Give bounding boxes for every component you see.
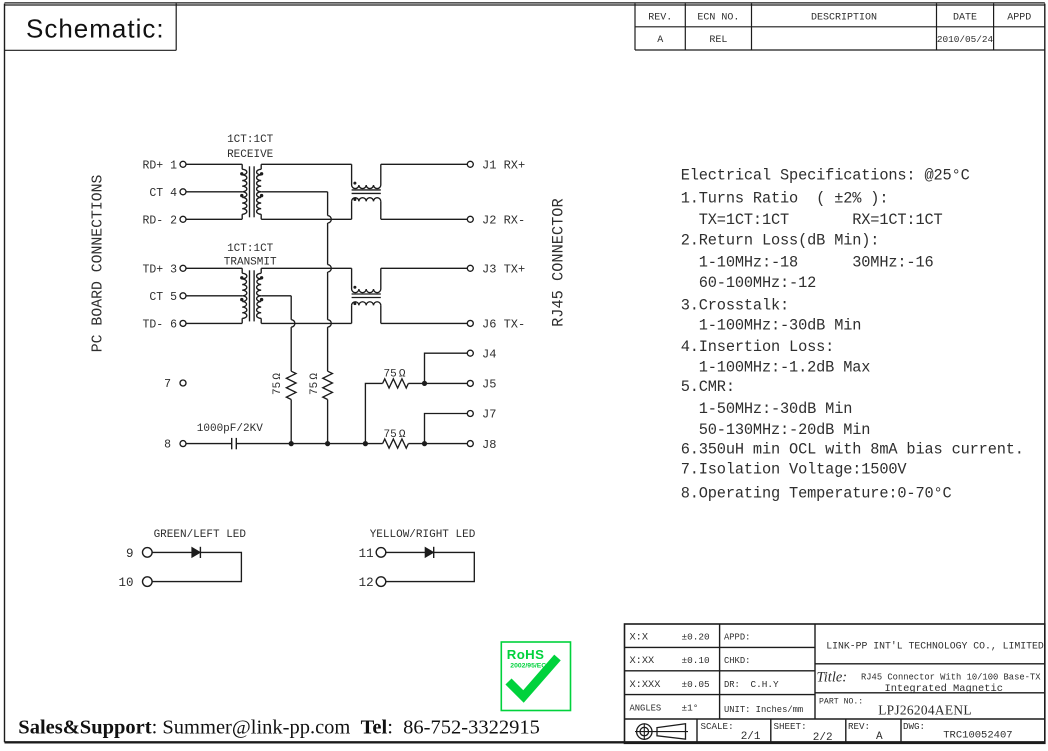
svg-text:1-10MHz:-18 30MHz:-16: 1-10MHz:-18 30MHz:-16 — [681, 253, 934, 271]
svg-text:2002/95/EC: 2002/95/EC — [510, 662, 546, 669]
svg-text:RJ45 CONNECTOR: RJ45 CONNECTOR — [550, 198, 568, 327]
pin 3 TD+ — [180, 265, 186, 271]
junction node A (J4/J5) — [422, 381, 427, 386]
svg-text:Schematic:: Schematic: — [26, 14, 165, 44]
svg-text:LPJ26204AENL: LPJ26204AENL — [878, 703, 972, 718]
wire R2 to bus — [327, 400, 329, 444]
title box "Schematic:" — [5, 49, 177, 51]
RJ45 contact J4 — [467, 350, 473, 356]
svg-text:RECEIVE: RECEIVE — [227, 149, 274, 161]
svg-text:75 Ω: 75 Ω — [383, 368, 405, 380]
pin 8 — [180, 441, 186, 447]
wire choke L1 to J2 — [381, 218, 468, 220]
svg-text:J7: J7 — [482, 408, 496, 422]
wire J4 to node A — [425, 353, 468, 383]
choke L1 (receive) top winding — [352, 185, 381, 189]
choke L1 (receive) polarity dots — [353, 182, 356, 185]
svg-text:J4: J4 — [482, 347, 496, 361]
svg-text:2.Return Loss(dB Min):: 2.Return Loss(dB Min): — [681, 231, 880, 249]
wire 9 to LED anode — [152, 551, 192, 553]
svg-text:RD- 2: RD- 2 — [142, 214, 177, 227]
svg-text:TRC10052407: TRC10052407 — [943, 730, 1012, 742]
svg-text:J6 TX-: J6 TX- — [482, 318, 525, 332]
svg-text:J8: J8 — [482, 438, 496, 452]
svg-text:APPD: APPD — [1007, 12, 1031, 23]
svg-text:TRANSMIT: TRANSMIT — [224, 256, 277, 268]
svg-text:TD+ 3: TD+ 3 — [142, 263, 177, 276]
svg-text:A: A — [657, 35, 663, 46]
svg-text:50-130MHz:-20dB Min: 50-130MHz:-20dB Min — [681, 421, 871, 439]
svg-text:REV:: REV: — [848, 721, 870, 732]
svg-text:75 Ω: 75 Ω — [383, 429, 405, 441]
wire R4 to J8 — [408, 443, 467, 445]
pin 11 — [376, 548, 386, 558]
transformer T2 (transmit) polarity dots — [240, 276, 243, 279]
svg-text:SCALE:: SCALE: — [701, 721, 734, 732]
svg-text:J1 RX+: J1 RX+ — [482, 159, 525, 173]
svg-text:Sales&Support: Summer@link-pp.: Sales&Support: Summer@link-pp.com Tel: 8… — [18, 717, 540, 739]
svg-text:75 Ω: 75 Ω — [272, 373, 284, 395]
pin 4 CT — [180, 189, 186, 195]
transformer T1 (receive) core — [249, 166, 251, 217]
svg-text:REL: REL — [709, 35, 727, 46]
green/left LED D1 cathode bar — [199, 547, 201, 558]
wire pin5 to T2 primary center tap — [186, 295, 242, 297]
choke L2 (transmit) top winding — [352, 289, 381, 293]
page frame — [5, 2, 1045, 4]
svg-text:DWG:: DWG: — [903, 721, 925, 732]
pin 12 — [376, 577, 386, 587]
svg-text:RoHS: RoHS — [507, 647, 545, 662]
choke L2 (transmit) polarity dots — [353, 286, 356, 289]
svg-text:Integrated Magnetic: Integrated Magnetic — [884, 683, 1002, 695]
svg-text:CT 4: CT 4 — [149, 187, 177, 200]
wire pin1 to T1 primary — [186, 163, 242, 165]
svg-text:7.Isolation Voltage:1500V: 7.Isolation Voltage:1500V — [681, 461, 908, 479]
svg-text:±0.05: ±0.05 — [682, 679, 711, 690]
svg-text:3.Crosstalk:: 3.Crosstalk: — [681, 297, 789, 315]
svg-text:X:X: X:X — [630, 632, 649, 644]
transformer T1 (receive) secondary winding — [257, 169, 262, 214]
resistor R1 75ohm (transmit CT) — [286, 371, 296, 399]
wire pin6 to T2 primary bottom — [186, 322, 242, 324]
title block bottom strip dividers — [696, 719, 698, 743]
svg-text:RJ45 Connector With 10/100 Bas: RJ45 Connector With 10/100 Base-TX — [861, 673, 1041, 683]
wire pin2 to T1 primary bottom — [186, 218, 242, 220]
wire T1 secondary top to choke L1 — [261, 163, 351, 165]
svg-text:X:XXX: X:XXX — [630, 679, 661, 691]
svg-text:1000pF/2KV: 1000pF/2KV — [197, 423, 263, 435]
svg-text:PART NO.:: PART NO.: — [819, 698, 863, 707]
wire T1 secondary center tap to resistor R2 (with hops) — [261, 191, 327, 193]
svg-text:2/2: 2/2 — [813, 732, 833, 744]
svg-text:CHKD:: CHKD: — [724, 656, 750, 666]
svg-text:1.Turns Ratio ( ±2% ):: 1.Turns Ratio ( ±2% ): — [681, 190, 889, 208]
resistor R2 75ohm (receive CT) — [323, 371, 333, 399]
resistor R4 75ohm (on bus) — [383, 439, 409, 448]
RJ45 contact J6 — [467, 320, 473, 326]
wire J7 to node B — [425, 414, 468, 444]
wire pin4 to T1 primary center tap — [186, 191, 242, 193]
svg-text:LINK-PP INT'L TECHNOLOGY CO.,: LINK-PP INT'L TECHNOLOGY CO., LIMITED — [826, 641, 1044, 652]
RJ45 contact J5 — [467, 380, 473, 386]
wire T1 secondary bottom to choke L1 — [261, 218, 351, 220]
svg-text:11: 11 — [359, 547, 374, 561]
wire J5 to node A — [425, 382, 468, 384]
svg-text:6.350uH min OCL with 8mA bias: 6.350uH min OCL with 8mA bias current. — [681, 440, 1024, 458]
wire R3 left to bus — [365, 383, 382, 443]
ground bus wire from C1 to R4 — [237, 443, 383, 445]
svg-text:DESCRIPTION: DESCRIPTION — [811, 12, 877, 23]
svg-text:C.H.Y: C.H.Y — [751, 679, 780, 690]
svg-text:5.CMR:: 5.CMR: — [681, 378, 735, 396]
svg-text:10: 10 — [118, 576, 133, 590]
svg-text:GREEN/LEFT LED: GREEN/LEFT LED — [154, 529, 247, 541]
svg-text:8.Operating Temperature:0-70°C: 8.Operating Temperature:0-70°C — [681, 485, 952, 503]
transformer T2 (transmit) core — [249, 270, 251, 321]
choke L2 (transmit) bottom winding — [352, 302, 381, 306]
svg-text:9: 9 — [126, 547, 134, 561]
yellow/right LED D2 cathode bar — [433, 547, 435, 558]
svg-text:1CT:1CT: 1CT:1CT — [227, 243, 274, 255]
choke L2 (transmit) core — [352, 293, 381, 295]
svg-text:UNIT: Inches/mm: UNIT: Inches/mm — [724, 705, 803, 715]
pin 2 RD- — [180, 216, 186, 222]
svg-text:SHEET:: SHEET: — [774, 721, 807, 732]
wire LED cathode to 12 — [386, 552, 475, 581]
svg-text:Electrical Specifications: @25: Electrical Specifications: @25°C — [681, 167, 970, 185]
title block frame — [625, 624, 1045, 743]
svg-text:TX=1CT:1CT RX=1CT:1CT: TX=1CT:1CT RX=1CT:1CT — [681, 211, 943, 229]
wire T2 secondary bottom to choke L2 — [261, 322, 351, 324]
transformer T2 (transmit) secondary winding — [257, 273, 262, 318]
RJ45 contact J7 — [467, 411, 473, 417]
RJ45 contact J8 — [467, 441, 473, 447]
pin 7 — [180, 380, 186, 386]
RoHS checkmark — [509, 658, 558, 697]
svg-text:X:XX: X:XX — [630, 655, 655, 667]
transformer T2 (transmit) primary winding — [242, 273, 247, 318]
svg-text:2/1: 2/1 — [741, 731, 761, 743]
wire pin3 to T2 primary — [186, 267, 242, 269]
wire pin8 to capacitor C1 — [186, 443, 231, 445]
pin 6 TD- — [180, 320, 186, 326]
RJ45 contact J1 — [467, 161, 473, 167]
svg-text:Title:: Title: — [817, 670, 848, 686]
svg-text:75 Ω: 75 Ω — [309, 373, 321, 395]
svg-text:RD+ 1: RD+ 1 — [142, 159, 177, 172]
transformer T1 (receive) polarity dots — [240, 172, 243, 175]
svg-text:DR:: DR: — [724, 680, 740, 690]
svg-text:YELLOW/RIGHT LED: YELLOW/RIGHT LED — [370, 529, 476, 541]
svg-text:1-100MHz:-1.2dB Max: 1-100MHz:-1.2dB Max — [681, 358, 871, 376]
third angle projection symbol — [637, 724, 652, 739]
svg-text:60-100MHz:-12: 60-100MHz:-12 — [681, 274, 816, 292]
yellow/right LED D2 diode triangle — [425, 548, 433, 558]
RJ45 contact J3 — [467, 265, 473, 271]
svg-text:1CT:1CT: 1CT:1CT — [227, 134, 274, 146]
svg-text:ANGLES: ANGLES — [630, 704, 662, 714]
bus junction at R1 — [289, 441, 294, 446]
wire T2 secondary center tap to resistor R1 (with hop) — [261, 295, 291, 297]
wire choke L2 to J6 — [381, 322, 468, 324]
junction node B (J7/J8) — [422, 441, 427, 446]
wire R1 to bus — [290, 400, 292, 444]
svg-text:J3 TX+: J3 TX+ — [482, 263, 525, 277]
svg-text:1-100MHz:-30dB Min: 1-100MHz:-30dB Min — [681, 317, 862, 335]
svg-text:APPD:: APPD: — [724, 633, 750, 643]
pin 5 CT — [180, 293, 186, 299]
svg-text:DATE: DATE — [953, 12, 977, 23]
wire choke L2 to J3 — [381, 267, 468, 269]
svg-text:PC BOARD CONNECTIONS: PC BOARD CONNECTIONS — [91, 174, 107, 352]
bus junction at R3 — [363, 441, 368, 446]
svg-text:1-50MHz:-30dB Min: 1-50MHz:-30dB Min — [681, 400, 853, 418]
wire choke L1 to J1 — [381, 163, 468, 165]
pin 1 RD+ — [180, 161, 186, 167]
choke L1 (receive) bottom winding — [352, 198, 381, 202]
svg-text:±0.20: ±0.20 — [682, 632, 711, 643]
pin 10 — [143, 577, 153, 587]
bus junction at R2 — [325, 441, 330, 446]
svg-text:12: 12 — [359, 576, 374, 590]
svg-text:A: A — [876, 731, 883, 743]
pin 9 — [143, 548, 153, 558]
wire 11 to LED anode — [386, 551, 425, 553]
svg-text:REV.: REV. — [648, 12, 672, 23]
svg-text:CT 5: CT 5 — [149, 291, 177, 304]
resistor R3 75ohm (J4/J5 to bus) — [383, 379, 409, 388]
transformer T1 (receive) primary winding — [242, 169, 247, 214]
svg-text:±1°: ±1° — [682, 703, 699, 714]
svg-text:TD- 6: TD- 6 — [142, 318, 177, 331]
wire T2 secondary top to choke L2 — [261, 267, 351, 269]
RJ45 contact J2 — [467, 216, 473, 222]
RoHS logo box — [501, 642, 570, 711]
svg-text:±0.10: ±0.10 — [682, 655, 711, 666]
svg-text:7: 7 — [164, 378, 171, 391]
capacitor C1 1000pF/2KV — [231, 438, 233, 449]
choke L1 (receive) core — [352, 189, 381, 191]
svg-text:ECN NO.: ECN NO. — [697, 12, 739, 23]
svg-text:J5: J5 — [482, 378, 496, 392]
wire R3 right to node A — [408, 382, 424, 384]
svg-text:4.Insertion Loss:: 4.Insertion Loss: — [681, 338, 835, 356]
svg-text:J2 RX-: J2 RX- — [482, 214, 525, 228]
revision table — [634, 4, 636, 50]
green/left LED D1 diode triangle — [192, 548, 200, 558]
svg-text:8: 8 — [164, 439, 171, 452]
svg-text:2010/05/24: 2010/05/24 — [937, 34, 994, 45]
wire LED cathode to 10 — [152, 552, 241, 581]
